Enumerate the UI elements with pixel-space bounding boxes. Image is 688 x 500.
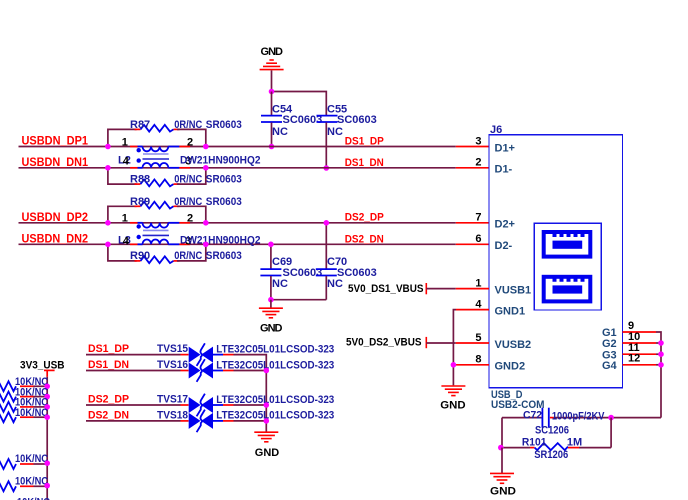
svg-text:DS1_DN: DS1_DN — [345, 157, 384, 169]
svg-text:1: 1 — [475, 277, 481, 289]
wire GND to junction — [271, 70, 273, 91]
svg-text:0R/NC: 0R/NC — [174, 250, 202, 262]
svg-text:D1-: D1- — [495, 164, 513, 176]
inductor L2 common-mode choke DW21HN900HQ2 — [118, 136, 261, 167]
svg-text:LTE32C05L01LCSOD-323: LTE32C05L01LCSOD-323 — [216, 394, 334, 406]
wire C69/C70 bottoms — [271, 299, 326, 301]
ground GND top — [260, 46, 284, 69]
resistor R87 — [108, 119, 242, 146]
pin J6.3 stub — [456, 146, 489, 148]
wire R101 right up to C72 junction — [610, 418, 612, 448]
svg-text:USBDN_DP2: USBDN_DP2 — [22, 210, 89, 224]
svg-text:TVS17: TVS17 — [157, 394, 188, 406]
wire C72 left down to R101 — [501, 418, 503, 448]
node C69 bottom junction — [268, 297, 274, 303]
USB receptacle icon top — [544, 232, 591, 257]
svg-text:SR0603: SR0603 — [206, 119, 242, 131]
svg-text:10K/NC: 10K/NC — [15, 453, 48, 465]
wire G-pin bus — [656, 332, 661, 418]
svg-text:12: 12 — [628, 353, 640, 365]
pin TVS17 right stub — [213, 404, 223, 406]
resistor RN4 10K/NC — [0, 407, 48, 422]
node R90/L3 row4 left — [105, 242, 111, 248]
svg-text:6: 6 — [475, 233, 481, 245]
resistor R88 — [108, 168, 242, 187]
svg-text:VUSB1: VUSB1 — [495, 284, 532, 296]
svg-text:NC: NC — [272, 278, 288, 290]
svg-text:TVS18: TVS18 — [157, 410, 188, 422]
svg-text:R90: R90 — [130, 250, 150, 262]
svg-text:2: 2 — [187, 213, 193, 225]
resistor R101 — [501, 437, 612, 461]
svg-text:USBDN_DP1: USBDN_DP1 — [22, 134, 89, 148]
svg-text:DS2_DP: DS2_DP — [345, 212, 384, 224]
port 5V0_DS1_VBUS — [348, 283, 426, 295]
capacitor C72 — [502, 408, 611, 437]
wire G2 to bus — [656, 342, 661, 344]
svg-text:10K/NC: 10K/NC — [17, 497, 50, 500]
pin TVS18 right stub — [213, 420, 223, 422]
capacitor C70 — [316, 223, 377, 300]
svg-text:R88: R88 — [130, 173, 150, 185]
diode TVS15 — [157, 343, 334, 366]
connector J6 body — [489, 124, 623, 388]
pin TVS16 right stub — [213, 370, 223, 372]
svg-text:GND1: GND1 — [495, 305, 526, 317]
svg-text:1: 1 — [122, 136, 128, 148]
diode TVS18 — [157, 410, 334, 433]
pin J6.G1 stub — [623, 331, 657, 333]
node R101 left junction — [498, 445, 504, 451]
node R88/L2 row2 right — [203, 165, 209, 171]
inductor L3 common-mode choke DW21HN900HQ2 — [118, 213, 261, 248]
wire 3V3 bus vertical — [46, 377, 48, 500]
wire row2 USBDN_DN1 / DS1_DN — [19, 167, 456, 169]
node RN3 — [44, 404, 50, 410]
capacitor C54 — [261, 92, 322, 147]
resistor RN1 10K/NC — [0, 376, 48, 391]
svg-text:NC: NC — [272, 126, 288, 138]
ground GND under TVS — [254, 432, 279, 459]
svg-text:4: 4 — [123, 155, 130, 167]
node C72/R101 right junction — [608, 415, 614, 421]
wire row4 USBDN_DN2 / DS2_DN — [19, 243, 456, 245]
wire TVS18 row — [86, 420, 181, 422]
node RN5 — [44, 460, 50, 466]
node C69 on row4 — [268, 242, 274, 248]
USB receptacle icon bottom — [544, 277, 591, 302]
svg-text:D1+: D1+ — [495, 142, 516, 154]
pin J6.7 stub — [456, 222, 489, 224]
node G2 bus — [658, 340, 664, 346]
svg-text:SC1206: SC1206 — [535, 425, 569, 437]
svg-text:10K/NC: 10K/NC — [15, 407, 48, 419]
pin J6.G4 stub — [623, 364, 657, 366]
pin J6.G3 stub — [623, 353, 657, 355]
resistor RN6 10K/NC — [0, 476, 48, 492]
node R89/L3 row3 left — [105, 220, 111, 226]
node TVS18 bus — [264, 418, 270, 424]
svg-text:LTE32C05L01LCSOD-323: LTE32C05L01LCSOD-323 — [216, 410, 334, 422]
wire TVS16 to gnd bus — [234, 370, 267, 372]
ground GND under C69 — [259, 308, 283, 334]
node RN6 — [44, 483, 50, 489]
svg-text:4: 4 — [123, 236, 130, 248]
svg-text:GND: GND — [490, 486, 516, 498]
node junction GND/C54/C55 — [269, 89, 275, 95]
wire row1 USBDN_DP1 / DS1_DP — [19, 146, 456, 148]
svg-text:0R/NC: 0R/NC — [174, 119, 202, 131]
wire row3 USBDN_DP2 / DS2_DP — [19, 222, 456, 224]
resistor R89 — [108, 196, 242, 223]
resistor R90 — [108, 244, 242, 263]
svg-text:SR0603: SR0603 — [206, 173, 242, 185]
capacitor C69 — [260, 244, 322, 299]
port 5V0_DS2_VBUS — [346, 337, 426, 349]
wire TVS17 to gnd bus — [234, 404, 267, 406]
svg-text:GND: GND — [440, 399, 465, 411]
wire G4 to bus — [656, 364, 661, 366]
wire VBUS2 to pin5 — [426, 342, 456, 344]
pin J6.1 stub — [456, 288, 489, 290]
svg-text:DS1_DN: DS1_DN — [88, 359, 129, 371]
wire junction to ground — [270, 300, 272, 308]
pin TVS16 left stub — [181, 370, 189, 372]
wire TVS15 to gnd bus — [234, 355, 267, 432]
node R88/L2 row2 left — [105, 165, 111, 171]
svg-text:SC0603: SC0603 — [283, 114, 323, 126]
node C70 on row3 — [324, 220, 330, 226]
svg-text:SC0603: SC0603 — [337, 114, 377, 126]
node RN1 — [44, 384, 50, 390]
node G4 bus — [658, 362, 664, 368]
svg-text:10K/NC: 10K/NC — [15, 476, 48, 488]
svg-text:GND2: GND2 — [495, 361, 526, 373]
pin J6.8 stub — [456, 364, 489, 366]
svg-text:G4: G4 — [602, 360, 618, 372]
svg-text:NC: NC — [327, 278, 343, 290]
svg-text:R101: R101 — [522, 437, 547, 449]
pin J6.2 stub — [456, 167, 489, 169]
svg-text:G2: G2 — [602, 338, 617, 350]
pin TVS17 left stub — [181, 404, 189, 406]
svg-text:TVS15: TVS15 — [157, 343, 188, 355]
wire TVS17 row — [86, 404, 181, 406]
svg-text:DS2_DN: DS2_DN — [345, 234, 384, 246]
svg-text:GND: GND — [261, 46, 284, 58]
svg-text:SR1206: SR1206 — [534, 449, 568, 461]
svg-text:0R/NC: 0R/NC — [174, 173, 202, 185]
resistor RN2 10K/NC — [0, 386, 48, 401]
svg-text:VUSB2: VUSB2 — [495, 339, 532, 351]
svg-text:NC: NC — [327, 126, 343, 138]
svg-text:D2-: D2- — [495, 240, 513, 252]
wire junction to C55 top — [272, 92, 327, 116]
pin J6.5 stub — [456, 342, 489, 344]
wire pin8 to vertical — [453, 364, 456, 366]
ground GND bottom right — [490, 473, 516, 497]
svg-text:8: 8 — [475, 354, 481, 366]
node RN4 — [44, 414, 50, 420]
svg-text:R87: R87 — [130, 119, 150, 131]
pin J6.6 stub — [456, 243, 489, 245]
svg-text:D2+: D2+ — [495, 219, 516, 231]
svg-text:5: 5 — [475, 332, 481, 344]
svg-text:DS1_DP: DS1_DP — [345, 135, 384, 147]
svg-text:USBDN_DN2: USBDN_DN2 — [22, 231, 89, 245]
wire VBUS1 to pin1 — [426, 288, 456, 290]
node pin8/gnd junction — [451, 362, 457, 368]
svg-text:J6: J6 — [490, 124, 502, 136]
node G3 bus — [658, 351, 664, 357]
wire junction down to ground — [501, 448, 503, 473]
node C54 on row1 — [269, 144, 275, 150]
svg-text:GND: GND — [260, 323, 283, 335]
resistor RN5 10K/NC — [0, 453, 48, 469]
svg-text:5V0_DS1_VBUS: 5V0_DS1_VBUS — [348, 283, 424, 295]
svg-text:TVS16: TVS16 — [157, 359, 188, 371]
wire TVS15 row — [86, 354, 181, 356]
node TVS16 bus — [264, 368, 270, 374]
svg-text:GND: GND — [255, 447, 279, 459]
svg-text:DW21HN900HQ2: DW21HN900HQ2 — [180, 235, 261, 247]
node R90/L3 row4 right — [203, 242, 209, 248]
node R87/L2 row1 left — [105, 144, 111, 150]
node R89/L3 row3 right — [203, 220, 209, 226]
svg-text:1M: 1M — [567, 437, 582, 449]
pin TVS15 right stub — [213, 354, 223, 356]
node C55 on row2 — [324, 165, 330, 171]
USB receptacle icon frame — [534, 223, 601, 310]
svg-text:0R/NC: 0R/NC — [174, 196, 202, 208]
svg-text:LTE32C05L01LCSOD-323: LTE32C05L01LCSOD-323 — [216, 343, 334, 355]
wire G3 to bus — [656, 353, 661, 355]
svg-text:4: 4 — [475, 298, 482, 310]
svg-text:2: 2 — [187, 136, 193, 148]
node TVS17 bus — [264, 402, 270, 408]
svg-text:1: 1 — [122, 213, 128, 225]
svg-text:SC0603: SC0603 — [337, 267, 377, 279]
svg-text:SR0603: SR0603 — [206, 196, 242, 208]
svg-text:DW21HN900HQ2: DW21HN900HQ2 — [180, 154, 261, 166]
pin TVS18 left stub — [181, 420, 189, 422]
svg-text:DS1_DP: DS1_DP — [88, 343, 129, 355]
wire C72 to G bus — [611, 417, 661, 419]
wire pin4 to gnd vertical — [453, 310, 456, 386]
svg-text:1000pF/2KV: 1000pF/2KV — [552, 410, 605, 422]
svg-text:3: 3 — [475, 135, 481, 147]
svg-text:SR0603: SR0603 — [206, 250, 242, 262]
svg-text:USBDN_DN1: USBDN_DN1 — [22, 155, 89, 169]
pin 3V3 stub — [44, 369, 55, 371]
pin J6.G2 stub — [623, 342, 657, 344]
svg-text:DS2_DN: DS2_DN — [88, 410, 129, 422]
wire TVS18 to gnd bus — [234, 420, 267, 422]
svg-text:DS2_DP: DS2_DP — [88, 394, 129, 406]
resistor RN3 10K/NC — [0, 397, 48, 412]
capacitor C55 — [317, 104, 377, 169]
svg-text:2: 2 — [475, 157, 481, 169]
node R87/L2 row1 right — [203, 144, 209, 150]
svg-text:C72: C72 — [523, 410, 542, 422]
svg-text:LTE32C05L01LCSOD-323: LTE32C05L01LCSOD-323 — [216, 359, 334, 371]
node RN2 — [44, 394, 50, 400]
svg-text:5V0_DS2_VBUS: 5V0_DS2_VBUS — [346, 337, 422, 349]
pin J6.4 stub — [456, 309, 489, 311]
ground GND under pin4/pin8 — [440, 386, 465, 411]
wire TVS16 row — [86, 370, 181, 372]
svg-text:R89: R89 — [130, 196, 150, 208]
pin TVS15 left stub — [181, 354, 189, 356]
svg-text:3V3_USB: 3V3_USB — [20, 360, 65, 372]
svg-text:7: 7 — [475, 212, 481, 224]
diode TVS16 — [157, 359, 334, 382]
diode TVS17 — [157, 394, 334, 417]
